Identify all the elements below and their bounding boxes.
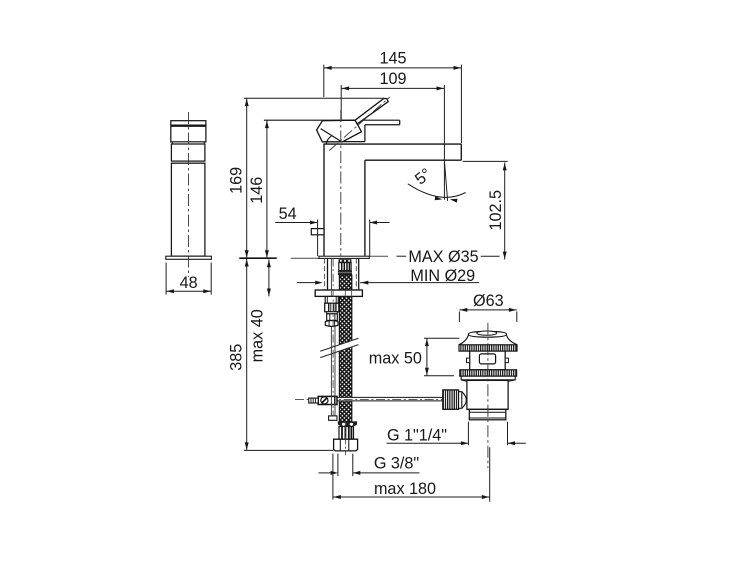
rod adjuster middle section: [327, 314, 338, 321]
dim 385 dimension line: [246, 259, 248, 451]
clamp screw head: [321, 397, 328, 404]
G3/8 thread extent lines: [337, 454, 339, 477]
rod end foot: [329, 416, 337, 420]
svg-text:146: 146: [248, 177, 266, 204]
svg-text:max 40: max 40: [248, 309, 266, 362]
handle top line and tab top: [264, 119, 400, 121]
drain plug flare sides: [459, 335, 517, 344]
drain body shoulder: [467, 408, 508, 410]
side view upper body section: [171, 144, 205, 161]
svg-text:G 1"1/4": G 1"1/4": [387, 427, 447, 445]
dim O63 dimension line: [459, 309, 516, 311]
spout underside: [365, 159, 461, 161]
pop-up rod upper left edge: [330, 259, 332, 397]
dim 109 dimension line: [341, 87, 444, 89]
drain flange rim: [461, 376, 515, 380]
braided hose: [339, 275, 351, 422]
svg-text:102.5: 102.5: [487, 190, 505, 231]
dim 109 extension lines: [340, 85, 342, 120]
aerator 5 degree tilt line: [445, 162, 448, 201]
svg-text:169: 169: [228, 167, 246, 194]
hose break white band: [337, 340, 354, 352]
side view base plate: [166, 256, 212, 259]
pop-up rod upper right edge: [334, 297, 336, 397]
rod edges across joint block: [330, 396, 332, 404]
rod adjuster barrel nut: [325, 321, 338, 327]
tab right edge: [399, 120, 401, 125]
svg-text:max 180: max 180: [374, 480, 436, 498]
dim O63 extension ticks: [458, 312, 460, 323]
svg-text:Ø63: Ø63: [473, 292, 504, 310]
spout tip edge: [460, 144, 462, 160]
pop-up joint clamp block: [318, 396, 337, 404]
cartridge collar right edge: [364, 125, 366, 142]
hose crimp collar: [339, 259, 352, 262]
drain tailpipe: [469, 409, 506, 419]
svg-text:48: 48: [180, 274, 198, 292]
svg-text:G 3/8": G 3/8": [374, 455, 420, 473]
mounting flange nut: [315, 290, 362, 296]
dim 385 bottom extension line: [244, 449, 334, 451]
rod coupling knob: [443, 390, 459, 409]
dim max50 extension lines: [424, 337, 459, 339]
handle pivot arc: [326, 136, 331, 144]
dim 145 extension lines: [323, 65, 325, 97]
side view centerline: [188, 112, 190, 277]
5 degree arc with arrows: [408, 184, 466, 198]
svg-text:max 50: max 50: [369, 350, 422, 368]
coupling connector piece: [459, 392, 462, 409]
svg-text:MAX Ø35: MAX Ø35: [408, 248, 478, 266]
drain plug dome top ellipse: [477, 331, 497, 335]
rod below joint: [330, 405, 332, 416]
dim 54 extension over tab: [317, 228, 319, 237]
dim 54 left line and arrow: [275, 222, 317, 224]
drain lower taper: [461, 380, 515, 382]
hose end ferrule: [339, 427, 354, 440]
side view body ring line: [171, 162, 205, 164]
drain top knurled flange: [459, 345, 517, 351]
svg-text:5°: 5°: [412, 165, 435, 189]
shank wall right: [358, 259, 360, 291]
overflow window: [479, 354, 495, 364]
svg-text:54: 54: [279, 205, 297, 223]
rod adjuster knurled nut: [325, 303, 339, 312]
shank hidden thread line right: [355, 259, 357, 291]
drain lower knurled flange: [460, 370, 517, 376]
dim 102.5 dimension line: [504, 163, 506, 260]
drain lower body: [467, 380, 508, 409]
faucet body left edge: [323, 144, 325, 256]
handle underside facet line: [321, 129, 341, 142]
dim 48 dimension line: [166, 290, 211, 292]
deck surface leader right of plate: [369, 255, 388, 257]
drain side tabs: [467, 358, 470, 363]
side view neck ring: [172, 142, 204, 144]
drain plug dome: [468, 331, 506, 337]
pipe break mark lines: [320, 345, 358, 358]
handle lever bar: [355, 98, 388, 124]
dim 54 right line and arrow: [370, 222, 390, 224]
svg-text:109: 109: [379, 70, 406, 88]
dim max50 dimension line: [426, 338, 428, 376]
dim 145 dimension line: [324, 67, 462, 69]
drain centerline: [487, 323, 489, 468]
dim max180 extension lines: [332, 454, 334, 500]
joint left pin: [309, 398, 319, 403]
hole diameter arrows: [297, 282, 316, 284]
dim 54 extension lines: [317, 220, 319, 257]
drain upper body: [470, 351, 506, 370]
counter top line thick left segment: [239, 257, 276, 259]
shank wall left: [327, 259, 329, 291]
aerator vertical reference line: [443, 143, 445, 200]
dim 102.5 extension line: [463, 160, 508, 162]
svg-text:385: 385: [228, 344, 246, 371]
dim max40 dimension line: [268, 259, 270, 296]
dim 48 extension lines: [165, 263, 167, 295]
pop-up joint horizontal rod to drain: [337, 397, 443, 402]
handle base wedge: [317, 120, 362, 142]
side view handle cap: [171, 121, 206, 142]
dim 169 dimension line: [246, 98, 248, 258]
faucet body right edge: [364, 160, 366, 256]
svg-text:145: 145: [379, 50, 406, 68]
faucet vertical centerline: [340, 110, 342, 256]
tab underside: [365, 124, 400, 126]
dim 146 dimension line: [266, 120, 268, 258]
faucet base plate: [319, 256, 369, 258]
lever inclined centerline: [329, 97, 390, 151]
dim max180 dimension line: [333, 496, 490, 498]
faucet top and spout top line: [323, 143, 461, 145]
rod adjuster divider ring: [327, 312, 338, 314]
handle top extension line: [244, 97, 384, 99]
hose end hex nut G3/8: [334, 439, 358, 451]
cartridge collar bottom line: [342, 141, 365, 143]
G1 1/4 thread extension lines: [467, 422, 469, 446]
side view lever edge line: [171, 125, 206, 127]
hose end collar: [338, 422, 356, 426]
rod horizontal centerline: [295, 398, 449, 400]
pop-up rod centerline: [332, 259, 334, 421]
shank tail tube: [325, 296, 338, 303]
fixing tab on body left: [311, 229, 324, 235]
shank hidden thread line left: [324, 259, 326, 291]
counter top line grey segment: [291, 257, 319, 259]
nut centerline: [345, 421, 347, 455]
side view column: [171, 163, 205, 256]
